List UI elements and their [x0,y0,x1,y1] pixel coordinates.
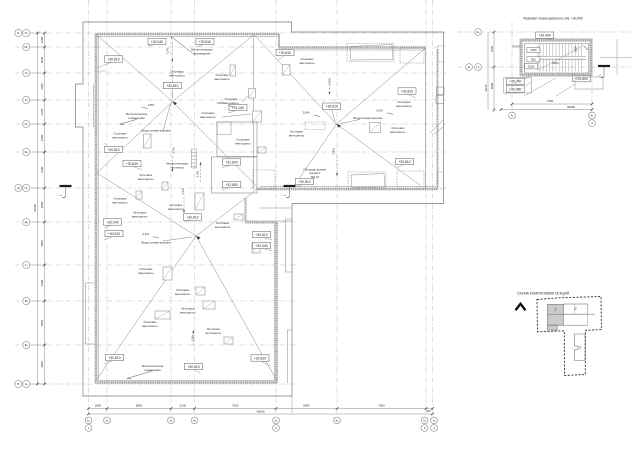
svg-text:Ж₁: Ж₁ [24,150,28,154]
slope arrow 1.0% up [192,330,194,346]
leader arrow [387,113,393,115]
svg-text:вентшахты: вентшахты [169,73,184,77]
svg-text:3,7%: 3,7% [166,47,170,54]
svg-text:2480: 2480 [40,134,44,141]
fragment dim box 9130 [525,64,538,69]
axis circle 1 bottom second row [85,425,92,432]
parapet line stem right [274,224,276,381]
svg-text:7200: 7200 [547,99,554,103]
elevation label +30,810 [97,56,123,68]
parapet line wing top [279,49,426,51]
stair wall hatch right [589,41,591,75]
vent shaft box [155,311,170,319]
svg-text:+30,810: +30,810 [401,89,413,93]
svg-text:+30,810: +30,810 [186,215,198,219]
slope arrow 3.7% [171,42,173,62]
vent shaft box [252,243,260,253]
svg-text:ограждение: ограждение [128,116,145,120]
svg-text:1: 1 [555,308,557,312]
svg-text:3800: 3800 [40,240,44,247]
equipment dashed box left of node [305,122,325,130]
vent shaft box [283,65,291,76]
rooftop equipment dashed box 4 [348,172,386,189]
railing jog at notch [96,70,107,72]
svg-text:вентшахты: вентшахты [112,200,127,204]
grid axis vertical x=88.5 [88,0,90,414]
svg-text:+32,040: +32,040 [255,244,267,248]
key plan inner line h2 [548,324,588,326]
grid axis vertical x=432.5 [432,0,434,414]
label vent shaft head [289,129,304,137]
grid axis horizontal y=222 [15,221,297,223]
svg-text:Е: Е [17,31,19,35]
svg-text:9194: 9194 [552,61,559,65]
svg-text:П₁: П₁ [25,186,28,190]
label vent shaft head [175,288,190,296]
svg-text:3,6%: 3,6% [181,188,185,195]
svg-text:+30,810: +30,810 [108,356,120,360]
stair wall hatch left [520,41,522,75]
svg-text:9130: 9130 [528,64,535,68]
fragment axis row Д [458,66,632,68]
svg-text:2,8%: 2,8% [217,101,224,105]
fragment bottom dims [512,103,592,105]
roof outline outer edge [76,22,444,396]
grid axis horizontal y=73 [15,72,446,74]
svg-text:Г₁: Г₁ [25,263,28,267]
axis circle И₁ [23,120,30,127]
wing hip fan point to drain node [254,35,337,125]
svg-text:+30,810: +30,810 [126,162,138,166]
elevation label +32,040 [104,219,122,228]
axis circle 4 bottom second row [431,425,438,432]
label vent shaft head [112,196,127,204]
svg-text:3860: 3860 [40,319,44,326]
metal ladder [192,149,197,168]
svg-text:Водосточная воронка: Водосточная воронка [353,116,382,120]
axis circle 3 bottom second row [421,425,428,432]
label vent shaft head [215,221,230,229]
slope arrow dashes to node [171,66,173,98]
svg-text:+32,040: +32,040 [151,40,163,44]
rooftop unit 4 [351,174,385,188]
svg-text:Д₁: Д₁ [25,220,28,224]
leader metal railing bottom [127,371,152,379]
key plan inner line v1 [573,304,575,314]
svg-text:7300: 7300 [232,403,239,407]
fragment stair outer wall [520,39,592,76]
elevation label +30,810 [185,363,203,373]
fragment label +30,450 [536,32,554,40]
label vent shaft head [396,100,411,108]
key plan section 2 [563,304,588,314]
elevation label +30,810 [396,158,414,168]
grid axis horizontal y=100 [15,99,446,101]
svg-text:+30,810: +30,810 [187,365,199,369]
label vent shaft head [169,69,184,77]
grid axis vertical x=107 [106,0,108,414]
fragment axis circle 4с [509,112,516,119]
key plan inner line h1 [548,313,596,315]
svg-text:вентшахты: вентшахты [168,207,183,211]
svg-text:В₁: В₁ [25,299,28,303]
stair travel line [539,45,584,70]
vent shaft box [230,65,236,76]
svg-text:+31,040: +31,040 [232,106,244,110]
axis circle В [15,380,22,387]
label vent shaft head [223,97,238,105]
elevation label +32,800 [222,159,241,168]
svg-text:30000: 30000 [256,409,264,413]
svg-text:3400: 3400 [40,361,44,368]
axis circle М₁ [23,43,30,50]
drain arrows at nodes [173,102,178,106]
leader arrow [153,237,159,239]
stair treads [539,44,541,57]
svg-text:+32,850: +32,850 [225,183,237,187]
roof hip left fan to drain node [97,102,173,174]
axis circle 1с bottom [85,417,92,424]
label vent shaft head [168,203,183,211]
svg-text:+29,800: +29,800 [575,77,587,81]
railing right edge [437,49,439,188]
svg-text:900: 900 [531,57,536,61]
right edge box 2 [436,96,444,104]
leader drain funnel 1 [163,104,171,131]
penthouse volume upper +32,800 [217,122,257,157]
vent shaft box [258,147,266,153]
slope arrow 3.6% [183,197,185,213]
svg-text:П₁: П₁ [476,65,479,69]
svg-text:31150: 31150 [33,204,37,212]
rooftop unit 1 [350,45,393,61]
leader arrow [314,115,320,117]
elevation label +30,810 [251,355,270,366]
svg-text:вентшахты: вентшахты [214,77,229,81]
grid axis vertical x=337 [336,0,338,414]
svg-text:+30,810: +30,810 [107,148,119,152]
svg-text:300: 300 [426,410,431,413]
svg-text:2,4%: 2,4% [142,232,149,236]
roof valley drain node to fan point [173,35,255,102]
elevation label +32,040 [253,242,273,251]
railing stem notch vertical [245,198,247,223]
left edge lower notch [86,283,97,344]
svg-text:+32,040: +32,040 [106,220,118,224]
fragment diagonal 1 [524,78,556,96]
left dimension line segments [44,33,46,384]
roof hip bottom-right corner to apex [196,236,277,381]
grid axis vertical x=171 [170,0,172,414]
fragment label +30,950 [506,82,532,92]
leader arrow [228,106,234,108]
elevation label +30,810 [184,214,202,222]
fragment vertical dims [493,32,495,110]
label vent shaft head [214,73,229,81]
svg-text:А₁: А₁ [25,382,28,386]
railing stem right [275,223,278,383]
rooftop equipment dashed box 3 [438,46,444,63]
slope arrow 3.7% mid [171,156,173,172]
slope arrow 1.5% [200,162,202,182]
wing interior wall x=425.5 [425,48,427,189]
stair wall hatch top [522,39,591,41]
railing step [278,34,280,48]
axis circle Н₁ [23,29,30,36]
svg-text:вентшахты: вентшахты [206,331,221,335]
bottom dimension line segments [89,408,433,410]
label metal railing [126,112,148,120]
label vent shaft head [138,173,153,181]
label vent shaft head [206,327,221,335]
label vent shaft head [180,306,195,314]
railing top right wing [279,46,426,49]
rooftop equipment dashed box right edge [438,172,444,189]
grid axis horizontal y=152 [15,151,446,153]
axis circle Д [15,184,22,191]
elevation label +30,810 [295,178,314,187]
svg-text:1800: 1800 [95,403,102,407]
svg-text:вентшахты: вентшахты [112,135,127,139]
svg-text:Водосточная воронка: Водосточная воронка [142,241,171,245]
grid axis vertical x=194.5 [194,0,196,414]
railing stem shoulder [246,222,278,224]
svg-text:+30,810: +30,810 [398,160,410,164]
axis circle Г₁ [23,261,30,268]
svg-text:В: В [17,382,19,386]
penthouse inner room [217,122,231,135]
svg-text:вентшахты: вентшахты [299,61,314,65]
label vent shaft head [235,137,250,145]
left overall dimension [37,33,39,384]
svg-text:вентшахты: вентшахты [175,292,190,296]
svg-text:5800: 5800 [136,403,143,407]
grid axis horizontal y=301 [15,300,297,302]
svg-text:Ж₁: Ж₁ [476,30,480,34]
interior wall vertical x=253.5 [253,36,255,188]
elevation label +31,040 [228,104,247,113]
axis circle 2с bottom [104,417,111,424]
grid axis horizontal y=47 [15,46,446,48]
axis circle В₁ [23,297,30,304]
svg-text:2980: 2980 [40,201,44,208]
bottom overall dimension 30000 [89,413,433,415]
roof hip left fan to lower apex [97,173,196,236]
vent shaft box [249,89,256,99]
fragment axis circle Д [466,64,473,71]
axis circle 7с bottom [421,417,428,424]
fragment diagonal 3 [556,84,575,96]
axis circle Б₁ [23,341,30,348]
svg-text:794,27: 794,27 [310,175,319,179]
label metal railing [142,364,164,372]
vent shaft box [224,337,233,344]
grid axis horizontal y=345 [15,344,297,346]
svg-text:5400: 5400 [303,403,310,407]
right edge box 1 [437,87,445,95]
fragment dim box 900 [527,57,540,62]
railing top-left section [96,33,280,36]
vent shaft box [253,111,262,122]
label vent shaft head [390,126,405,134]
roof hip bottom-left corner to apex [96,236,197,381]
label vent shaft head [200,111,215,119]
elevation label +30,810 [163,82,181,99]
svg-text:И₁: И₁ [25,122,28,126]
svg-text:вентшахты: вентшахты [138,271,153,275]
svg-text:3100: 3100 [40,166,44,173]
slope arrow 3.4% [336,156,338,176]
leader vent label 2 [222,114,251,117]
fragment axis circle П1 [475,64,482,71]
grid axis horizontal y=188 [15,187,446,189]
svg-text:+30,450: +30,450 [538,34,550,38]
svg-text:2150: 2150 [40,108,44,115]
svg-text:+30,810: +30,810 [199,40,211,44]
svg-text:2800: 2800 [490,82,494,89]
fragment label +30,740 [506,76,530,85]
axis circle 6с bottom [334,417,341,424]
leader drain funnel 3 [340,120,360,124]
vent shaft box [196,287,205,295]
grid axis horizontal y=384 [15,383,300,385]
elevation label +30,810 [123,160,142,170]
leader vent label [242,95,249,102]
extension line bottom right corner [291,396,293,413]
key plan section 1 shaded [548,304,564,325]
svg-text:вентшахты: вентшахты [215,225,230,229]
svg-text:М₁: М₁ [24,45,28,49]
svg-text:2100: 2100 [180,403,187,407]
svg-text:Л₁: Л₁ [25,71,28,75]
vent shaft box [370,123,381,133]
axis circle 5с bottom [273,417,280,424]
fragment lower-right box [575,77,603,89]
svg-text:вентшахты: вентшахты [200,115,215,119]
roof valley apex to railing corner [196,189,258,237]
svg-text:лестница: лестница [170,165,183,169]
grid axis horizontal y=265 [15,264,297,266]
svg-text:2,0%: 2,0% [328,78,332,85]
svg-text:2,8%: 2,8% [303,111,310,115]
roof hip top-left corner to drain node [97,35,173,102]
fragment section marker [598,66,611,78]
vent shaft box [203,301,215,309]
vent shaft box [162,182,168,190]
svg-text:+30,810: +30,810 [326,105,338,109]
svg-text:+30,810: +30,810 [279,51,291,55]
elevation label +32,040 [148,38,166,46]
parapet line bottom [98,380,275,382]
elevation label +30,810 [196,38,214,47]
svg-text:3,4%: 3,4% [332,148,336,155]
axis circle Л₁ [23,69,30,76]
svg-text:1006: 1006 [573,46,577,53]
wing valley to bottom-left [294,124,337,186]
section cut marker 1 left [59,186,72,198]
roof valley drain node to railing corner [173,102,259,188]
svg-text:СХЕМА КОМПОНОВКИ СЕКЦИЙ: СХЕМА КОМПОНОВКИ СЕКЦИЙ [517,292,570,296]
leader arrow [142,107,148,109]
fragment axis circle 3 [589,120,596,127]
svg-text:2: 2 [575,307,577,311]
notch inner wall [93,84,95,127]
axis circle А₁ [23,380,30,387]
svg-text:Водосточная воронка: Водосточная воронка [142,129,171,133]
svg-text:2480: 2480 [40,83,44,90]
label metal railing [191,47,213,55]
svg-text:7600: 7600 [378,403,385,407]
svg-text:вентшахты: вентшахты [235,141,250,145]
railing right wing bottom [258,188,438,191]
key plan inner line v2 [587,304,589,325]
right edge diagonal 2 [434,127,444,134]
leader drain funnel 2 [163,237,192,241]
svg-text:Н₁: Н₁ [25,31,28,35]
svg-text:+30,810: +30,810 [107,57,119,61]
axis circle 1с bottom [431,417,438,424]
label metal ladder [166,161,188,169]
svg-text:3250: 3250 [490,45,494,52]
fragment dim box 1060 [527,47,540,52]
svg-text:вентшахты: вентшахты [223,101,238,105]
fragment label +29,800 [573,73,591,82]
key plan section 3 core [575,334,586,361]
svg-text:ЛС04: ЛС04 [512,45,520,49]
parapet line wing bottom [260,186,436,188]
axis circle П₁ [23,184,30,191]
svg-text:+30,810: +30,810 [255,233,267,237]
railing left edge [95,34,98,383]
elevation label +30,810 [323,103,341,122]
svg-text:+30,810: +30,810 [166,84,178,88]
stem edge jog lower [288,330,293,383]
label vent shaft head [299,57,314,65]
svg-text:ограждение: ограждение [144,368,161,372]
elevation label +32,850 [222,181,241,190]
section cut marker 1 right [283,186,296,198]
svg-text:вентшахты: вентшахты [138,177,153,181]
fragment axis circle Ж1 [475,29,482,36]
vent shaft box [163,267,172,280]
right edge diagonal [430,120,443,133]
railing bottom [96,381,278,384]
svg-text:+30,810: +30,810 [254,356,266,360]
fragment axis row Ж1 [458,31,632,33]
stem edge jog upper [286,219,293,272]
elevation label +30,810 [253,231,273,240]
elevation label +30,810 [398,88,416,98]
label vent shaft head [112,131,127,139]
grid axis horizontal y=33 [15,32,446,34]
svg-text:2,8%: 2,8% [148,103,155,107]
svg-text:вентшахты: вентшахты [180,310,195,314]
fragment stair inner wall [525,44,589,74]
svg-text:вентшахты: вентшахты [396,104,411,108]
stair wall hatch bottom [522,73,591,75]
parapet line top-left [96,36,280,38]
svg-text:+32,800: +32,800 [225,160,237,164]
vent shaft box [195,193,204,210]
grid axis horizontal y=124 [15,123,446,125]
stair rail middle 2 [538,58,586,60]
key plan building outline [537,297,602,376]
label roof area section 1 [303,168,326,179]
svg-text:вентшахты: вентшахты [289,133,304,137]
rooftop equipment dashed box 6 [253,170,275,189]
elevation label +30,810 [276,49,294,60]
rooftop equipment dashed box 5 [397,171,424,189]
